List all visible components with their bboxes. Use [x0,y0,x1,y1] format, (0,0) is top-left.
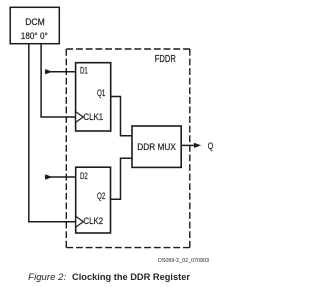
svg-text:DDR MUX: DDR MUX [137,142,176,152]
svg-text:Q2: Q2 [97,191,105,201]
svg-text:CLK1: CLK1 [83,112,103,122]
svg-text:Q: Q [208,141,214,151]
svg-text:DS099-2_02_070903: DS099-2_02_070903 [158,258,209,264]
svg-text:DCM: DCM [25,17,45,28]
svg-text:CLK2: CLK2 [83,216,103,226]
flip-flop D1 [76,63,111,131]
data input arrow into D2 [45,174,76,179]
DDR MUX block [132,126,181,167]
output Q arrow wire [181,143,201,148]
svg-text:Q1: Q1 [97,88,105,98]
wire: Q2 output to DDR MUX lower input [111,158,133,199]
wire: Q1 output to DDR MUX upper input [111,97,132,136]
DCM block [10,7,59,43]
wire: DCM 180 deg output down to CLK2 [29,44,76,222]
svg-text:FDDR: FDDR [155,54,176,65]
svg-text:Clocking the DDR Register: Clocking the DDR Register [72,272,190,282]
svg-text:D2: D2 [80,171,88,181]
FDDR dashed boundary box [66,49,190,248]
data input arrow into D1 [45,69,76,74]
svg-text:180° 0°: 180° 0° [21,31,48,42]
figure caption [28,272,190,282]
svg-text:Figure 2:: Figure 2: [28,272,67,282]
wire: DCM 0 deg output down to CLK1 [41,44,76,117]
flip-flop D2 [76,167,111,233]
svg-text:D1: D1 [80,66,88,76]
